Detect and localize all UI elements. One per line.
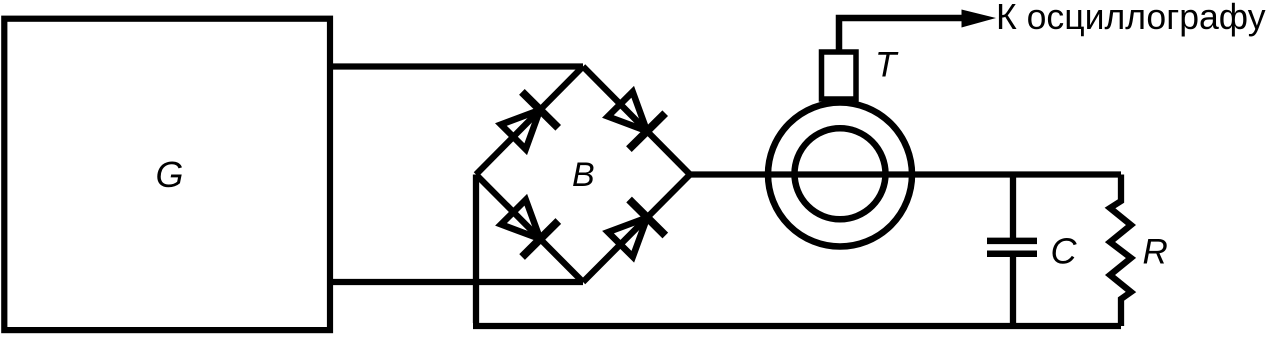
diode D2 cathode bar <box>629 113 665 149</box>
diode D4 cathode bar <box>629 200 665 236</box>
diode D1 triangle (lower-left arm of bridge, pointing to top vertex) <box>501 110 540 149</box>
transformer T outer circle <box>768 103 912 247</box>
capacitor C bottom plate <box>987 251 1037 258</box>
bridge diamond arm top-right <box>583 67 690 175</box>
diode D2 triangle (top-right arm, pointing to right vertex) <box>608 92 647 131</box>
bottom rail wire to C and R <box>473 323 1121 329</box>
capacitor C top plate <box>987 238 1037 245</box>
resistor R zigzag <box>1110 175 1131 327</box>
wire G bottom output to bridge bottom vertex <box>330 279 583 285</box>
wire bridge negative output: left vertex down to bottom rail <box>473 175 479 324</box>
svg-text:C: C <box>1051 231 1078 272</box>
wire bridge positive output: right vertex through transformer to C and R <box>690 171 1121 177</box>
diode D1 cathode bar <box>522 92 558 128</box>
wire from pickup box to oscilloscope arrow <box>839 18 962 52</box>
transformer T inner circle <box>795 128 886 219</box>
svg-text:B: B <box>572 156 595 194</box>
svg-text:G: G <box>156 154 184 195</box>
capacitor C bottom lead <box>1010 256 1016 326</box>
bridge diamond arm bottom-right <box>583 175 690 283</box>
wire G top output to bridge top vertex <box>330 63 583 69</box>
transformer pickup box <box>822 52 857 99</box>
capacitor C top lead <box>1010 175 1016 239</box>
svg-text:T: T <box>875 45 899 84</box>
diode D4 triangle (bottom-right arm, pointing to right vertex) <box>608 218 647 257</box>
svg-text:R: R <box>1143 233 1168 272</box>
diode D3 triangle (bottom-left arm, pointing to bottom vertex) <box>501 200 540 239</box>
svg-text:К осциллографу: К осциллографу <box>996 0 1266 37</box>
bridge diamond arm left-top <box>476 67 583 175</box>
generator G box <box>4 19 330 330</box>
arrowhead to oscilloscope <box>962 10 997 28</box>
bridge diamond arm left-bottom <box>476 175 583 283</box>
diode D3 cathode bar <box>522 221 558 257</box>
